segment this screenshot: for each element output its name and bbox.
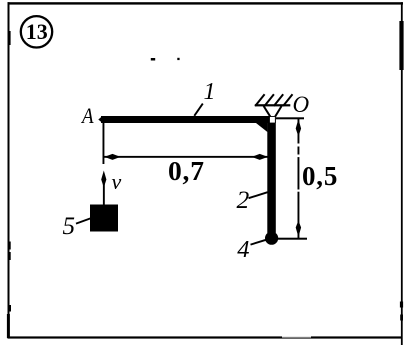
- svg-text:0,5: 0,5: [302, 161, 338, 191]
- label 1 leader line: [194, 104, 203, 116]
- rod 2 vertical bar: [267, 116, 276, 233]
- frame right border blob 1: [400, 302, 403, 308]
- svg-text:4: 4: [237, 236, 249, 263]
- frame right border blob 2: [400, 315, 403, 321]
- support hatch 4: [283, 94, 292, 106]
- dimension 0,7 right arrowhead: [252, 154, 268, 160]
- speck 2: [177, 58, 179, 60]
- label 4 leader line: [251, 240, 267, 245]
- dimension 0,5 top arrowhead: [296, 119, 301, 137]
- dimension 0,7 left arrowhead: [104, 154, 120, 160]
- extension line right of ball 4: [278, 238, 307, 240]
- support hatch 3: [274, 94, 283, 106]
- frame right border: [401, 2, 403, 345]
- frame left border nub 1: [9, 31, 10, 45]
- frame left border thick bottom segment: [7, 314, 10, 338]
- frame left border nub 2: [9, 242, 10, 250]
- speck 1: [151, 58, 155, 61]
- support pin right leg: [275, 106, 281, 117]
- svg-text:A: A: [80, 105, 94, 129]
- dimension line 0,5: [298, 118, 300, 238]
- dimension line 0,5 gap 2: [297, 155, 300, 158]
- svg-text:2: 2: [237, 185, 250, 214]
- support hatch 1: [255, 94, 264, 106]
- extension line below A: [103, 123, 105, 164]
- pivot pin white square at O: [270, 117, 275, 123]
- dimension 0,5 bottom arrowhead: [296, 221, 301, 238]
- frame right border thick segment: [399, 21, 403, 70]
- support ceiling line at O: [255, 104, 290, 106]
- svg-text:13: 13: [26, 19, 48, 44]
- frame left border nub 4: [9, 305, 11, 312]
- rod 1 horizontal bar: [101, 116, 276, 123]
- velocity arrowhead: [101, 171, 106, 188]
- frame top border: [8, 2, 404, 4]
- body 5 square: [90, 205, 118, 232]
- svg-text:0,7: 0,7: [168, 155, 205, 186]
- frame left border nub 3: [9, 252, 10, 260]
- dimension line 0,5 gap 3: [297, 190, 300, 192]
- svg-text:5: 5: [63, 213, 76, 240]
- support hatch 2: [265, 94, 274, 106]
- frame bottom border: [8, 336, 403, 338]
- velocity arrow shaft: [103, 182, 105, 205]
- ball 4: [265, 232, 278, 245]
- problem number badge circle 13: [21, 16, 52, 47]
- label 5 leader line: [76, 218, 92, 224]
- svg-text:v: v: [112, 169, 122, 194]
- label 2 leader line: [249, 192, 268, 198]
- support pin left leg: [264, 106, 271, 117]
- frame bottom border thin patch: [282, 336, 311, 337]
- rod 1 left end tip at A: [98, 116, 102, 123]
- svg-text:O: O: [293, 92, 310, 117]
- dimension line 0,7: [104, 156, 268, 158]
- corner fillet between rod 1 and rod 2: [256, 123, 267, 132]
- dimension line 0,5 gap 1: [297, 144, 300, 147]
- extension line right of pivot O: [276, 117, 304, 119]
- frame left border: [8, 2, 10, 338]
- svg-text:1: 1: [204, 79, 216, 105]
